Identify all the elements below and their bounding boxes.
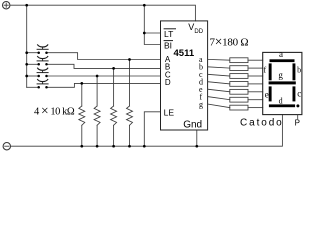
wire top supply rail to Vdd xyxy=(10,5,195,21)
svg-text:DD: DD xyxy=(194,29,203,35)
wire left rail xyxy=(26,5,28,87)
resistor Rf 180 xyxy=(230,97,248,102)
resistor Rg 180 xyxy=(230,105,248,110)
wire LE to ground rail xyxy=(144,112,160,146)
wire row3 switch to pin C xyxy=(48,75,161,77)
resistor R2 10k xyxy=(94,106,100,125)
wire pin d to Rd xyxy=(208,82,230,84)
wire pin g to Rg xyxy=(208,104,230,108)
wire Rd to display d xyxy=(248,83,263,85)
segment e xyxy=(269,86,272,101)
decimal point xyxy=(296,104,299,107)
switch S3 xyxy=(37,68,49,78)
svg-text:e: e xyxy=(265,90,269,100)
resistor Ra 180 xyxy=(230,58,248,63)
svg-text:P: P xyxy=(295,119,300,128)
op IC 4511 box xyxy=(161,21,208,130)
wire row4 switch to pin D xyxy=(48,83,161,87)
wire Rf to display f xyxy=(248,99,263,101)
resistor R1 10k xyxy=(79,106,85,125)
negative supply terminal xyxy=(3,143,10,150)
wire row1 switch to pin A xyxy=(48,53,161,60)
switch S2 xyxy=(37,56,49,66)
svg-text:7×180 Ω: 7×180 Ω xyxy=(210,34,249,49)
resistor Rb 180 xyxy=(230,66,248,71)
wire resistor R4 drop xyxy=(129,60,131,147)
svg-text:d: d xyxy=(279,97,283,106)
svg-text:V: V xyxy=(188,22,194,32)
resistor Rc 180 xyxy=(230,74,248,79)
svg-text:f: f xyxy=(264,66,267,75)
segment d xyxy=(269,104,295,107)
wire Rc to display c xyxy=(248,75,263,77)
wire row3 switch feed xyxy=(27,75,38,77)
wire row4 switch feed xyxy=(27,86,38,88)
svg-text:Catodo: Catodo xyxy=(240,117,284,128)
resistor R4 10k xyxy=(127,106,133,125)
svg-text:Gnd: Gnd xyxy=(183,120,202,131)
wire Ra to display a xyxy=(248,59,263,61)
segment g xyxy=(269,81,296,84)
wire pin b to Rb xyxy=(208,67,230,68)
svg-text:LE: LE xyxy=(164,107,175,117)
wire bottom ground rail and cathode xyxy=(11,115,283,147)
wire resistor R1 drop xyxy=(81,83,83,146)
segment c xyxy=(293,86,296,101)
segment b xyxy=(293,63,296,80)
wire row1 switch feed xyxy=(27,52,38,54)
wire decimal point pin P xyxy=(297,115,299,119)
resistor R3 10k xyxy=(111,106,117,125)
segment f xyxy=(269,63,272,80)
svg-text:g: g xyxy=(199,100,203,109)
svg-text:b: b xyxy=(297,66,301,75)
svg-text:BI: BI xyxy=(164,40,172,50)
wire resistor R2 drop xyxy=(96,76,98,146)
svg-text:c: c xyxy=(297,89,301,99)
svg-text:4 × 10 kΩ: 4 × 10 kΩ xyxy=(34,103,75,118)
wire Rb to display b xyxy=(248,67,263,69)
wire row2 switch to pin B xyxy=(48,64,161,68)
segment a xyxy=(270,59,295,62)
wire IC ground pin xyxy=(196,130,198,146)
resistor Re 180 xyxy=(230,89,248,94)
wire resistor R3 drop xyxy=(113,68,115,146)
label Vdd xyxy=(188,22,204,35)
svg-text:g: g xyxy=(278,70,283,80)
display box xyxy=(263,52,302,114)
svg-text:D: D xyxy=(165,78,171,87)
label BI pin xyxy=(164,40,173,50)
wire Rg to display g xyxy=(248,107,263,109)
svg-text:a: a xyxy=(279,49,283,59)
wire pin f to Rf xyxy=(208,97,230,100)
wire Re to display e xyxy=(248,91,263,93)
switch S1 xyxy=(37,44,49,54)
wire row2 switch feed xyxy=(27,63,38,65)
wire pin e to Re xyxy=(208,89,230,92)
wire pin c to Rc xyxy=(208,74,230,76)
wire LT BI feed xyxy=(144,5,160,44)
svg-text:LT: LT xyxy=(164,29,173,39)
svg-text:4511: 4511 xyxy=(174,48,195,59)
switch S4 xyxy=(37,79,49,89)
wire pin a to Ra xyxy=(208,58,230,61)
label LT pin xyxy=(164,29,176,39)
positive supply terminal xyxy=(2,1,9,8)
resistor Rd 180 xyxy=(230,82,248,87)
